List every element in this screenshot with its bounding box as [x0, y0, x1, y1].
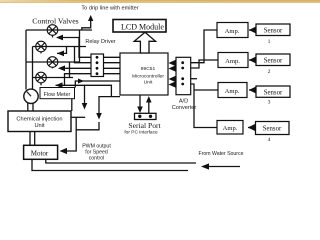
svg-text:Motor: Motor	[31, 150, 49, 158]
svg-text:1: 1	[268, 39, 271, 45]
svg-text:Sensor: Sensor	[264, 58, 283, 65]
svg-text:From Water Source: From Water Source	[198, 151, 243, 157]
svg-text:Amp.: Amp.	[225, 28, 240, 35]
svg-text:Unit: Unit	[144, 79, 153, 85]
svg-text:Amp.: Amp.	[225, 58, 240, 65]
svg-text:Amp.: Amp.	[223, 125, 238, 132]
svg-text:Serial Port: Serial Port	[128, 121, 161, 130]
svg-text:control: control	[89, 156, 105, 162]
svg-text:Sensor: Sensor	[264, 90, 283, 97]
svg-text:2: 2	[268, 69, 271, 75]
svg-text:Sensor: Sensor	[263, 126, 282, 133]
svg-text:Chemical injection: Chemical injection	[16, 117, 62, 123]
svg-text:Unit: Unit	[34, 123, 45, 129]
svg-text:Relay Driver: Relay Driver	[85, 39, 115, 45]
svg-text:LCD Module: LCD Module	[121, 23, 164, 32]
svg-text:Sensor: Sensor	[264, 28, 283, 35]
svg-text:Microcontroller: Microcontroller	[132, 73, 164, 79]
svg-text:89C51: 89C51	[141, 66, 156, 72]
svg-text:Flow Meter: Flow Meter	[44, 92, 71, 98]
svg-text:Control Valves: Control Valves	[32, 17, 78, 26]
svg-text:A/D: A/D	[179, 99, 188, 105]
svg-text:for PC interface: for PC interface	[124, 129, 158, 135]
svg-text:3: 3	[268, 100, 271, 106]
svg-text:Amp.: Amp.	[225, 88, 240, 95]
svg-text:4: 4	[268, 137, 271, 143]
svg-text:To drip line with emitter: To drip line with emitter	[81, 6, 138, 12]
svg-text:Converter: Converter	[172, 105, 197, 111]
